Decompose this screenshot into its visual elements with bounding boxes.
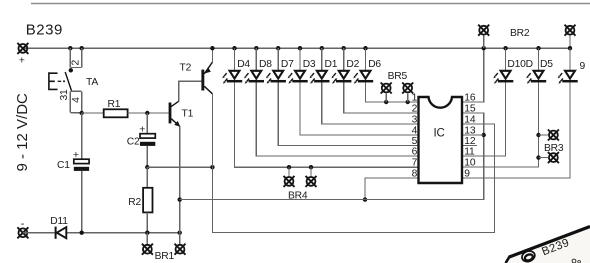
LED D3 — [288, 71, 308, 84]
node: rail junction D6 — [363, 46, 367, 50]
wire: stub to BR1 pad b — [179, 233, 181, 244]
svg-text:3: 3 — [412, 115, 418, 126]
pushbutton TA terminal box pin 2 — [70, 48, 81, 67]
svg-text:9: 9 — [464, 169, 470, 180]
wire: R2 down to ground rail — [146, 212, 148, 232]
svg-text:R2: R2 — [128, 197, 141, 208]
wire: D6 branch to pin 1 — [366, 48, 419, 102]
svg-text:+: + — [73, 149, 79, 161]
wire: D1 branch to pin 3 — [322, 48, 419, 124]
node: TA output junction — [80, 111, 84, 115]
wire: junction to T2 collector line — [147, 166, 212, 168]
wire: D7 branch to pin 5 — [278, 48, 418, 145]
svg-text:D2: D2 — [346, 59, 359, 70]
node: C2/R2 junction — [145, 165, 149, 169]
wire: T1 collector up and to T2 base — [179, 81, 202, 101]
node: BR3 pad a junction — [536, 133, 540, 137]
svg-text:D8: D8 — [259, 59, 272, 70]
svg-text:2: 2 — [71, 60, 82, 66]
transistor T2 collector line — [204, 86, 212, 94]
transistor T2 emitter line with arrow (PNP) — [204, 62, 212, 74]
svg-text:13: 13 — [464, 126, 476, 137]
svg-text:12: 12 — [464, 136, 476, 147]
resistor R1 — [104, 109, 128, 117]
pad + (positive supply) — [17, 43, 28, 54]
pushbutton TA terminal box pin 4 — [70, 91, 81, 112]
svg-text:2: 2 — [412, 104, 418, 115]
svg-text:6: 6 — [412, 147, 418, 158]
solder bridge BR4 pad b — [306, 176, 317, 187]
wire: C2 down to R2 node — [146, 146, 148, 167]
node: rail junction D9 — [568, 46, 572, 50]
node: BR4 pad a junction — [287, 165, 291, 169]
wire: junction down to R2 — [146, 167, 148, 188]
LED D7 — [266, 71, 286, 84]
svg-text:C1: C1 — [57, 160, 70, 171]
svg-text:14: 14 — [464, 115, 476, 126]
pushbutton TA contact dot — [69, 68, 73, 72]
solder bridge BR5 pad b — [402, 83, 413, 94]
svg-text:4: 4 — [71, 97, 82, 103]
wire: TA junction down to C1 — [81, 113, 83, 160]
svg-text:TA: TA — [86, 77, 98, 88]
svg-text:B239: B239 — [26, 22, 63, 39]
wire: D3 branch to pin 4 — [300, 48, 419, 135]
node: rail junction D2 — [342, 46, 346, 50]
svg-text:+: + — [19, 55, 25, 67]
wire: stub to BR1 pad a — [146, 233, 148, 244]
wire: BR2 pad b stub — [569, 36, 571, 49]
node: BR5 pad b junction — [406, 100, 410, 104]
transistor T2 base bar — [201, 70, 204, 91]
svg-text:R1: R1 — [108, 99, 121, 110]
svg-text:D10D: D10D — [507, 59, 533, 70]
wire: IC pin 8 down to bus — [365, 178, 419, 200]
svg-text:5: 5 — [412, 136, 418, 147]
wire: R1 to T1 base — [128, 112, 169, 114]
wire: IC pin 12 stub — [462, 145, 477, 147]
node: T2 emitter at rail — [210, 46, 214, 50]
node: BR3 pad b junction — [536, 155, 540, 159]
svg-text:D5: D5 — [540, 59, 553, 70]
capacitor C2 (electrolytic) — [140, 134, 155, 138]
node: rail junction D7 — [276, 46, 280, 50]
svg-text:1: 1 — [412, 93, 418, 104]
wire: D2 branch to pin 2 — [344, 48, 419, 113]
wire: LED D9 to IC pin 9 — [462, 48, 570, 178]
diode D11 — [55, 227, 57, 239]
wire: BR3 pad b stub — [539, 157, 549, 159]
wire: T1 emitter down to ground rail — [179, 126, 181, 233]
solder bridge BR4 pad a — [284, 176, 295, 187]
svg-text:D3: D3 — [303, 59, 316, 70]
solder bridge BR5 pad a — [381, 83, 392, 94]
solder bridge BR2 pad a — [478, 25, 489, 36]
svg-text:9: 9 — [580, 61, 586, 72]
transistor T1 base bar — [169, 103, 172, 124]
wire: BR5 stubs — [386, 94, 408, 103]
wire: LED D10 to IC pin 11 — [462, 48, 506, 156]
LED D1 — [310, 71, 330, 84]
node: rail junction D8 — [254, 46, 258, 50]
wire: D4 branch — [235, 48, 419, 167]
wire: T2 emitter up to rail — [211, 48, 213, 62]
svg-text:D7: D7 — [281, 59, 294, 70]
LED D6 — [353, 71, 373, 84]
PCB photo corner — [504, 226, 590, 263]
svg-text:10: 10 — [464, 158, 476, 169]
pushbutton TA switch lever — [65, 72, 71, 91]
svg-text:11: 11 — [464, 147, 475, 158]
svg-text:D1: D1 — [325, 59, 338, 70]
LED D4 — [222, 71, 242, 84]
svg-text:D11: D11 — [50, 216, 68, 227]
node: pin 13 junction — [482, 133, 486, 137]
svg-text:BR2: BR2 — [510, 28, 530, 39]
svg-text:BR3: BR3 — [544, 143, 564, 154]
wire: T2 collector down, across and up to IC pin 14 — [212, 94, 494, 233]
transistor T1 collector line — [171, 101, 179, 106]
wire: BR3 pad a stub — [539, 134, 549, 136]
svg-text:16: 16 — [464, 93, 476, 104]
LED D10 — [493, 71, 513, 84]
wire: emitter bus to IC pins 15 and 13 — [180, 113, 484, 200]
svg-text:D4: D4 — [237, 59, 250, 70]
node: pin 16 riser at rail — [482, 46, 486, 50]
node: rail junction D1 — [320, 46, 324, 50]
node: BR5 pad a junction — [384, 100, 388, 104]
node: rail at TA box left — [68, 46, 72, 50]
node: rail junction D10 — [503, 46, 507, 50]
solder bridge BR3 pad a — [548, 130, 559, 141]
wire: D8 branch to pin 6 — [256, 48, 418, 156]
pad - (negative supply) — [17, 227, 28, 238]
wire: TA junction to R1 — [82, 112, 104, 114]
svg-text:IC: IC — [434, 127, 445, 139]
svg-text:T1: T1 — [182, 108, 194, 119]
svg-text:BR1: BR1 — [155, 251, 175, 262]
decorative top border line — [31, 3, 590, 5]
svg-text:+: + — [139, 123, 145, 135]
wire: IC pin 16 up to rail — [462, 48, 484, 102]
wire: stub T1 emitter to BR1 — [179, 233, 181, 244]
svg-text:D6: D6 — [368, 59, 381, 70]
wire: IC pin 13 — [462, 134, 484, 136]
svg-text:8: 8 — [412, 169, 418, 180]
op-amp IC body (DIP-16) — [419, 97, 463, 183]
svg-text:4: 4 — [412, 126, 418, 137]
node: R2 at ground rail — [145, 231, 149, 235]
svg-text:31: 31 — [59, 89, 70, 101]
transistor T1 emitter line with arrow — [171, 119, 179, 127]
node: BR4 pad b junction — [309, 165, 313, 169]
svg-text:7: 7 — [412, 158, 418, 169]
node: rail junction D4 — [232, 46, 236, 50]
svg-text:BR5: BR5 — [388, 71, 408, 82]
node: rail at TA box right — [80, 46, 84, 50]
node: T1 emitter at ground rail — [178, 231, 182, 235]
svg-text:9 - 12 V/DC: 9 - 12 V/DC — [14, 93, 31, 172]
solder bridge BR1 pad b — [175, 244, 186, 255]
wire: bottom left rail — [23, 232, 180, 234]
solder bridge BR1 pad a — [142, 244, 153, 255]
solder bridge BR2 pad b — [565, 25, 576, 36]
pushbutton TA actuator — [48, 72, 57, 90]
LED D9 — [558, 71, 578, 84]
capacitor C1 (electrolytic) — [74, 159, 89, 163]
node: rail junction D5 — [536, 46, 540, 50]
resistor R2 — [143, 188, 152, 213]
svg-text:15: 15 — [464, 104, 476, 115]
LED D5 — [526, 71, 546, 84]
svg-text:-: - — [21, 218, 25, 230]
wire: junction down to C2 — [146, 113, 148, 134]
node: T1 emitter at bus — [178, 197, 182, 201]
node: rail junction D3 — [298, 46, 302, 50]
wire: C1 down to ground rail — [81, 171, 83, 233]
solder bridge BR3 pad b — [548, 152, 559, 163]
svg-text:C2: C2 — [127, 136, 140, 147]
wire: BR2 pad a stub — [483, 36, 485, 49]
node: T2 collector junction — [210, 165, 214, 169]
svg-text:T2: T2 — [180, 63, 192, 74]
node: C1 at ground rail — [80, 231, 84, 235]
node: base junction with C2 — [145, 111, 149, 115]
wire: top supply rail — [23, 47, 570, 49]
wire: BR4 stubs — [289, 167, 311, 176]
node: pin 8 at bus — [363, 197, 367, 201]
LED D8 — [244, 71, 264, 84]
LED D2 — [332, 71, 352, 84]
wire: LED D5 to IC pin 10 — [462, 48, 539, 167]
